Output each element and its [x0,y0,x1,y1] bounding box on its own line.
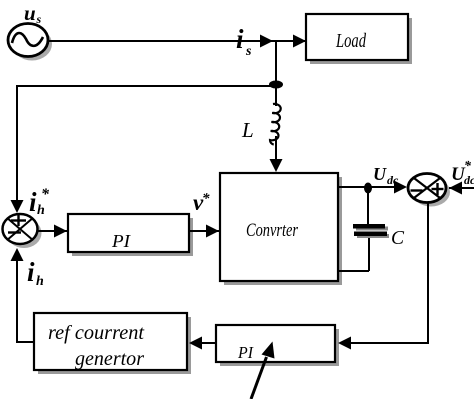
svg-text:dc: dc [387,173,399,187]
svg-text:i: i [27,257,35,287]
svg-text:PI: PI [237,343,254,362]
svg-text:C: C [391,228,405,249]
svg-text:ref courrent: ref courrent [48,322,144,344]
svg-text:u: u [24,1,36,25]
svg-text:PI: PI [111,231,131,251]
svg-text:dc: dc [464,173,474,187]
svg-text:Convrter: Convrter [246,220,298,241]
svg-text:*: * [41,186,50,203]
svg-text:Load: Load [335,30,366,52]
svg-text:U: U [373,164,387,184]
svg-text:*: * [464,159,472,174]
svg-text:L: L [241,118,254,142]
svg-text:s: s [36,12,42,26]
svg-text:s: s [245,44,252,59]
svg-text:h: h [36,274,44,289]
svg-text:i: i [236,24,244,54]
svg-text:*: * [202,191,210,207]
svg-text:h: h [37,203,45,218]
svg-text:i: i [29,187,37,217]
svg-text:genertor: genertor [75,348,144,370]
